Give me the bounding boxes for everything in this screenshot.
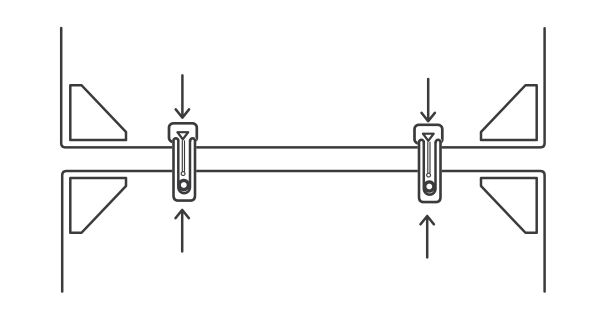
lower panel inverted-U outline	[62, 171, 544, 292]
clip 2 needle tip	[427, 173, 431, 177]
clip 2 head	[415, 125, 443, 144]
corner brace upper-left	[70, 85, 126, 140]
clip 2 needle slot	[428, 142, 430, 172]
clip 2 inner channel	[424, 142, 436, 194]
arrow up below clip 1	[176, 210, 189, 252]
clip 1 inner channel	[178, 141, 190, 193]
clip 2 wedge triangle	[423, 134, 434, 141]
clip 2 body white fill	[418, 139, 442, 204]
clip 1 body outer contour	[174, 138, 196, 200]
clip 2 group	[415, 125, 443, 204]
corner brace upper-right	[481, 85, 537, 140]
clip 1 wedge triangle	[177, 132, 188, 139]
arrow down above clip 1	[176, 75, 189, 117]
clip 1 needle slot	[182, 141, 184, 171]
upper panel U-shaped outline	[61, 28, 544, 147]
arrow down above clip 2	[422, 79, 435, 121]
clip 1 pivot ring	[179, 180, 188, 189]
clip 2 pivot ring	[425, 182, 434, 191]
corner brace lower-left	[70, 178, 126, 233]
arrow up below clip 2	[421, 216, 434, 257]
clip 1 head	[169, 123, 197, 142]
clip 1 body white fill	[172, 137, 196, 202]
clip 1 group	[169, 123, 197, 202]
clip 1 needle tip	[181, 172, 185, 176]
corner brace lower-right	[481, 178, 537, 233]
clip 2 body outer contour	[419, 140, 441, 202]
